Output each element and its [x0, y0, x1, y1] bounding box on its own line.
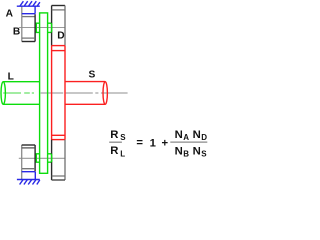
svg-text:N: N [193, 129, 201, 141]
ground hatching bottom (blue) [17, 179, 40, 184]
carrier pin right end caps (green, drawn over column edge) [51, 23, 53, 32]
main axis centerline (gray dash-dot) [41, 92, 128, 94]
svg-text:S: S [120, 133, 126, 142]
gear column black bottom section [52, 140, 65, 180]
svg-text:R: R [110, 129, 118, 141]
svg-text:N: N [175, 129, 183, 141]
compound gear bottom-left (gear pair, mirror) [22, 145, 35, 171]
shaft S (red output shaft cylinder) [65, 82, 107, 105]
svg-text:S: S [201, 150, 207, 159]
carrier pin top (green) [35, 23, 51, 32]
svg-text:=: = [136, 137, 143, 149]
svg-text:S: S [89, 70, 96, 81]
shaft L (green input shaft cylinder) [1, 82, 40, 105]
bearing block bottom (fixed mount) [21, 169, 23, 180]
ground hatching top (blue) [17, 1, 40, 6]
axis line of compound gear A-B (top, gray) [19, 27, 65, 29]
svg-text:A: A [183, 133, 189, 142]
svg-text:R: R [110, 145, 118, 157]
carrier pin bottom (green) [35, 154, 51, 162]
svg-text:D: D [57, 31, 64, 42]
main axis centerline (green dash-dot, shaft L) [3, 92, 34, 94]
svg-text:1: 1 [150, 137, 156, 149]
svg-text:D: D [201, 133, 207, 142]
gear D / gear S column: black top section (gear D) [52, 6, 65, 46]
svg-text:N: N [175, 145, 183, 157]
svg-text:B: B [183, 150, 189, 159]
arm L (green carrier bar) [40, 13, 48, 173]
fraction bar right [170, 141, 207, 143]
svg-text:N: N [193, 145, 201, 157]
svg-text:L: L [120, 150, 125, 159]
fraction bar left [109, 141, 122, 143]
compound gear A-B (top-left gear pair) [22, 14, 35, 41]
bearing block top (fixed mount) [21, 6, 23, 16]
svg-text:A: A [6, 8, 14, 19]
svg-text:L: L [8, 72, 14, 83]
axis line of compound gear (bottom, gray) [19, 157, 65, 159]
svg-text:+: + [162, 137, 169, 149]
gear S column red mid section [52, 46, 65, 140]
svg-text:B: B [13, 27, 20, 38]
